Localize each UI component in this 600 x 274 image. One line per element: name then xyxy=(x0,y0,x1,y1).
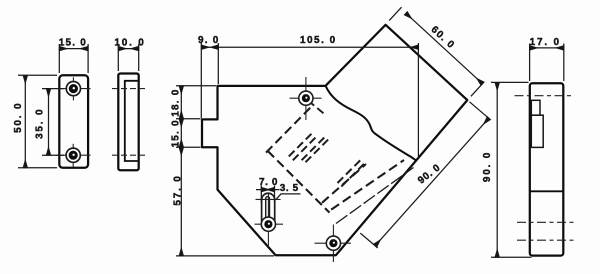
screw main top xyxy=(290,77,322,120)
slot pair 3 xyxy=(338,160,361,183)
hidden line: head top-right short xyxy=(308,101,325,115)
svg-text:18. 0: 18. 0 xyxy=(171,88,182,116)
centerline top xyxy=(515,95,572,97)
dimension 90.0 (head lower-right) xyxy=(360,102,490,248)
slot pair 2 xyxy=(302,136,326,160)
svg-text:35. 0: 35. 0 xyxy=(34,108,45,139)
centerline mid xyxy=(517,221,574,223)
hidden line D2 xyxy=(331,160,404,210)
inner clip window xyxy=(531,115,543,147)
body + head outline xyxy=(202,25,467,256)
svg-text:17. 0: 17. 0 xyxy=(530,37,561,48)
svg-text:90. 0: 90. 0 xyxy=(482,151,493,182)
hidden line: head lower-left edge xyxy=(268,151,330,213)
profile outline xyxy=(118,74,138,171)
hidden centerline bottom xyxy=(112,154,146,156)
hidden centerline top xyxy=(112,88,146,90)
dimension 35.0 (screw spacing) xyxy=(42,89,64,156)
dimension 50.0 (left view height) xyxy=(18,75,57,168)
leader 3.5 xyxy=(276,194,300,199)
screw hole bottom (left view) xyxy=(57,144,91,167)
hidden line D1 xyxy=(322,164,366,203)
dimension 60.0 (head upper-right) xyxy=(389,7,484,96)
svg-text:57. 0: 57. 0 xyxy=(172,174,183,205)
svg-text:50. 0: 50. 0 xyxy=(13,102,24,133)
svg-text:7. 0: 7. 0 xyxy=(259,177,278,188)
plate outline xyxy=(59,75,88,168)
svg-text:15. 0: 15. 0 xyxy=(59,38,87,49)
centerline bottom xyxy=(517,239,574,241)
screw main bottom xyxy=(315,225,352,263)
hidden line D3 xyxy=(336,168,414,224)
horizontal split line xyxy=(530,190,564,192)
dimension 17.0 xyxy=(530,44,564,82)
screw hole top (left view) xyxy=(57,77,91,100)
dimension 15.0 (left view width) xyxy=(59,44,88,73)
inner step lines xyxy=(125,81,139,161)
dimension 90.0 (side height) xyxy=(491,82,532,257)
dimension 9.0 / 105.0 top xyxy=(201,43,418,158)
svg-text:10. 0: 10. 0 xyxy=(114,38,145,49)
svg-text:9. 0: 9. 0 xyxy=(198,35,219,46)
dimension 10.0 xyxy=(118,44,138,71)
side body outline xyxy=(530,83,564,255)
inner clip small rect xyxy=(531,100,540,115)
svg-text:105. 0: 105. 0 xyxy=(300,35,337,46)
slot pair 1 xyxy=(289,133,312,156)
slot feature with screw xyxy=(255,193,284,246)
svg-text:3. 5: 3. 5 xyxy=(280,183,299,194)
curved housing edge xyxy=(326,86,416,160)
dimension 7.0 (slot) xyxy=(256,186,280,204)
svg-text:15. 0: 15. 0 xyxy=(171,119,182,147)
dimension 18.0 / 15.0 / 57.0 left xyxy=(176,86,274,256)
hidden line: head upper-left inner edge xyxy=(266,108,310,153)
